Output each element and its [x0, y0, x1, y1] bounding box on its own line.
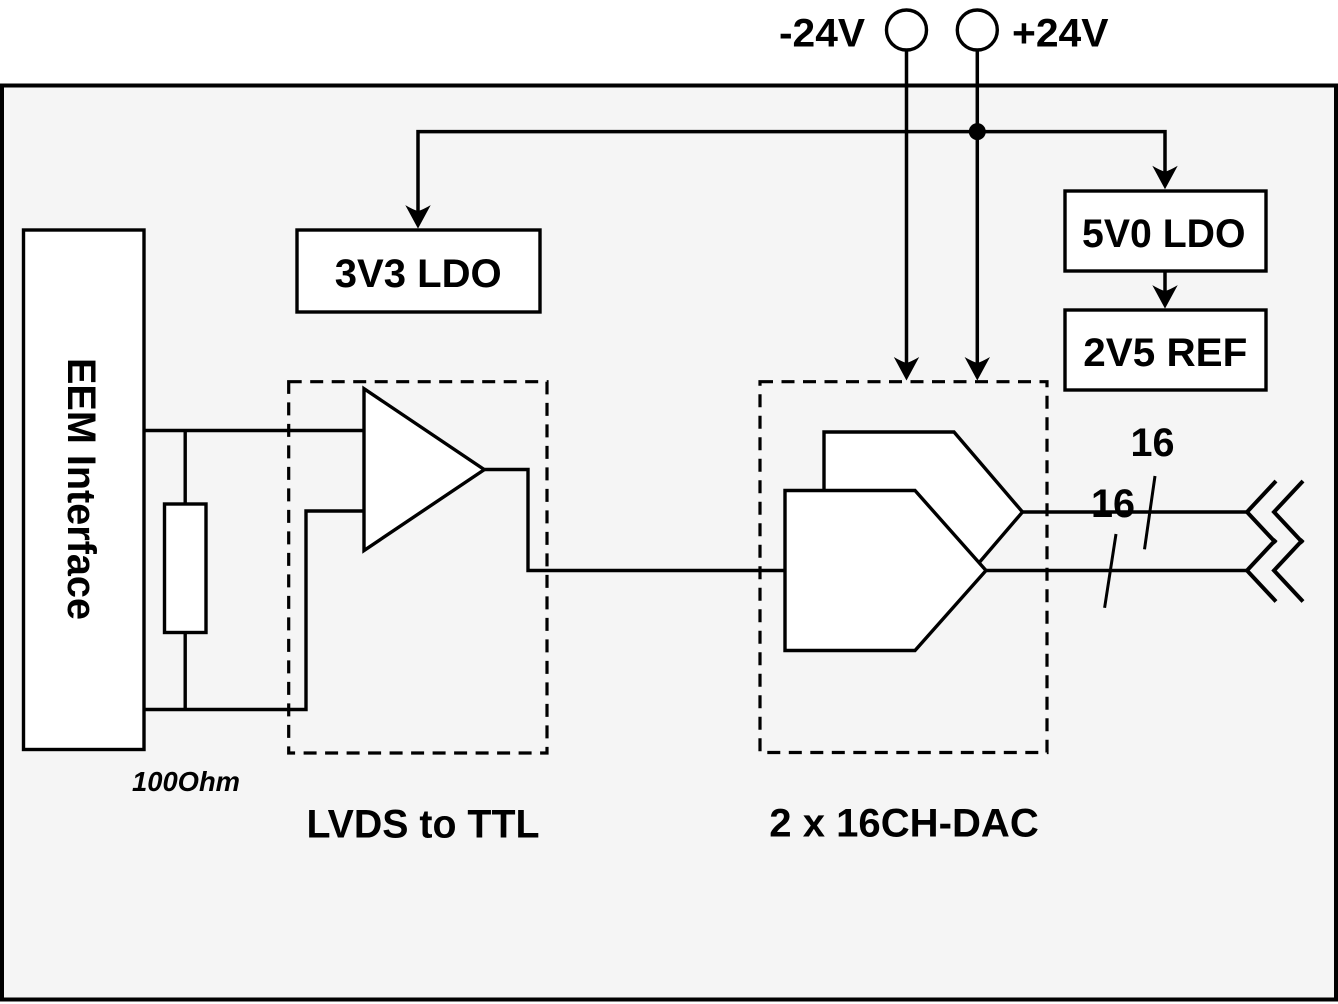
box 2V5 REF — [1065, 310, 1266, 390]
DAC back pentagon — [824, 432, 1023, 592]
svg-text:2 x 16CH-DAC: 2 x 16CH-DAC — [769, 801, 1039, 845]
arrowhead into 2V5 REF — [1152, 285, 1177, 309]
wire: power rail horizontal — [418, 132, 1165, 213]
box 5V0 LDO — [1065, 191, 1266, 271]
buffer triangle — [364, 389, 484, 551]
DAC front pentagon — [785, 491, 986, 651]
chevron break top wire — [1247, 481, 1276, 543]
svg-text:16: 16 — [1131, 421, 1175, 465]
svg-text:EEM Interface: EEM Interface — [59, 358, 103, 620]
arrowhead into DAC from -24V — [894, 357, 919, 381]
wire: buffer output to DAC — [484, 470, 785, 571]
junction dot — [969, 123, 986, 140]
wire: -24V stem — [905, 50, 909, 364]
wire: EEM to LVDS top pair — [144, 429, 364, 432]
terminal -24V — [887, 10, 927, 50]
box 3V3 LDO — [297, 230, 540, 312]
dashed box LVDS to TTL — [289, 382, 547, 753]
bus slash top — [1145, 476, 1156, 549]
arrowhead into DAC from +24V — [965, 357, 990, 381]
svg-text:5V0 LDO: 5V0 LDO — [1082, 212, 1246, 256]
svg-text:-24V: -24V — [779, 11, 865, 55]
dashed box 2 x 16CH-DAC — [760, 382, 1047, 753]
wire: DAC output bus bottom — [986, 569, 1247, 572]
wire: EEM bottom to riser — [144, 511, 364, 710]
svg-text:100Ohm: 100Ohm — [132, 766, 240, 797]
arrowhead into 3V3 LDO — [405, 205, 430, 229]
svg-text:2V5 REF: 2V5 REF — [1083, 331, 1247, 375]
svg-text:3V3 LDO: 3V3 LDO — [335, 252, 502, 296]
arrowhead into 5V0 LDO — [1152, 166, 1177, 190]
bus slash bottom — [1105, 534, 1116, 608]
svg-text:+24V: +24V — [1012, 11, 1109, 55]
wire: resistor connector — [183, 431, 186, 710]
wire: 5V0 to 2V5 — [1163, 271, 1167, 292]
svg-text:16: 16 — [1091, 482, 1135, 526]
box EEM Interface — [24, 230, 145, 750]
wire: DAC output bus top — [1023, 510, 1248, 513]
wire: +24V stem — [976, 50, 980, 364]
svg-text:LVDS to TTL: LVDS to TTL — [307, 802, 540, 846]
resistor 100Ohm — [165, 504, 207, 633]
chevron break bottom wire — [1247, 540, 1276, 602]
terminal +24V — [957, 10, 997, 50]
